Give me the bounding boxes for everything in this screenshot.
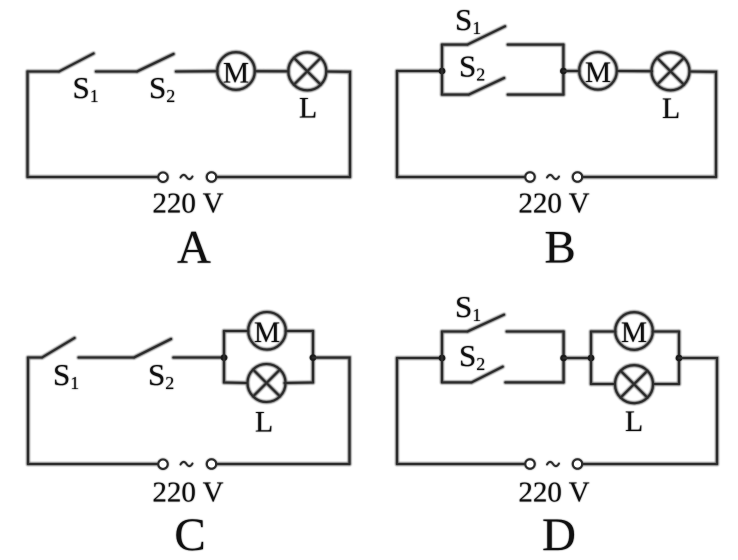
node D lamp-box left junction	[588, 355, 595, 362]
node D switch-box right junction	[560, 355, 567, 362]
switch S1 blade (C)	[42, 338, 75, 358]
AC tilde (C)	[181, 462, 193, 466]
switch S2 blade (B)	[469, 78, 504, 95]
lamp L (D) circle	[615, 365, 653, 403]
svg-text:S1: S1	[73, 70, 99, 106]
svg-text:M: M	[585, 57, 611, 89]
wire C left riser	[223, 331, 225, 383]
switch S1 blade (A)	[59, 54, 94, 72]
lamp L (A) cross	[294, 58, 321, 85]
wire A from S2 to motor	[176, 70, 218, 72]
wire B left to node	[397, 70, 442, 72]
switch S1 blade (D)	[467, 315, 504, 332]
wire B top branch right	[508, 44, 564, 46]
svg-text:C: C	[174, 509, 205, 560]
node B right junction	[560, 68, 567, 75]
wire D ML bottom branch right	[653, 383, 679, 385]
wire C bottom branch left	[224, 381, 247, 384]
svg-text:S2: S2	[149, 70, 175, 106]
wire D bottom-left	[397, 463, 525, 465]
wire C between S1 and S2	[79, 356, 134, 358]
svg-text:S2: S2	[148, 357, 174, 393]
svg-text:L: L	[662, 92, 680, 125]
motor M (A) circle	[217, 52, 255, 90]
wire D left vertical	[396, 358, 398, 464]
svg-text:220 V: 220 V	[152, 188, 223, 220]
wire B top branch left	[442, 44, 468, 46]
wire C left vertical	[27, 358, 29, 465]
svg-text:220 V: 220 V	[518, 188, 589, 220]
svg-text:L: L	[255, 406, 273, 439]
svg-text:M: M	[621, 317, 647, 349]
wire B lamp to right corner	[690, 72, 717, 178]
wire D ML bottom branch left	[591, 383, 615, 385]
wire C top-left segment	[28, 356, 42, 358]
wire C top branch right	[286, 330, 314, 332]
wire A lamp to right corner	[326, 72, 350, 178]
wire A between S1 and S2	[96, 70, 137, 72]
motor M (B) circle	[579, 52, 617, 90]
terminal right (C)	[207, 459, 216, 468]
wire A top-left segment	[28, 70, 60, 72]
terminal right (A)	[207, 172, 216, 181]
terminal left (B)	[525, 172, 534, 181]
wire B right riser	[562, 45, 564, 95]
node D left junction	[439, 355, 446, 362]
wire D node to right corner	[679, 358, 717, 464]
wire D link between boxes	[564, 357, 591, 359]
switch S2 blade (A)	[137, 54, 174, 72]
wire C bottom-right	[216, 463, 349, 465]
terminal left (C)	[158, 460, 167, 469]
svg-text:B: B	[544, 222, 575, 274]
lamp L (A) circle	[288, 52, 326, 90]
wire D top branch right	[507, 330, 564, 332]
wire D ML top branch right	[653, 330, 680, 332]
svg-text:220 V: 220 V	[152, 477, 223, 509]
wire B left vertical	[396, 71, 398, 177]
wire D lamp-box left riser	[590, 332, 592, 385]
lamp L (D) cross	[621, 371, 648, 398]
motor M (C) circle	[248, 312, 286, 350]
terminal left (D)	[525, 459, 534, 468]
wire D switch-box right riser	[563, 332, 565, 383]
wire A bottom-left	[28, 176, 159, 178]
wire A bottom-right	[216, 176, 350, 178]
svg-text:D: D	[542, 509, 576, 560]
wire B bottom-right	[582, 176, 716, 178]
wire A between motor and lamp	[255, 70, 289, 72]
wire D lamp-box right riser	[678, 332, 680, 385]
node C left junction	[221, 354, 228, 361]
wire D bottom branch right	[505, 381, 563, 383]
wire B bottom branch right	[508, 94, 564, 96]
wire B left riser	[441, 45, 443, 95]
terminal left (A)	[158, 173, 167, 182]
wire D left to node	[397, 357, 442, 359]
svg-text:L: L	[299, 92, 317, 125]
wire C from S2 to node	[173, 356, 224, 358]
node C right junction	[310, 354, 317, 361]
wire D switch-box left riser	[441, 332, 443, 383]
wire B bottom branch left	[442, 94, 469, 96]
svg-text:L: L	[625, 405, 643, 438]
wire C top branch left	[224, 330, 249, 332]
terminal right (B)	[573, 172, 582, 181]
svg-text:S2: S2	[459, 49, 485, 85]
AC tilde (A)	[181, 175, 193, 179]
lamp L (B) circle	[652, 52, 690, 90]
AC tilde (B)	[547, 175, 559, 179]
node B left junction	[439, 68, 446, 75]
switch S1 blade (B)	[468, 26, 506, 44]
wire B motor to lamp	[617, 70, 652, 72]
switch S2 blade (D)	[472, 367, 503, 383]
lamp L (C) cross	[253, 370, 280, 397]
switch S2 blade (C)	[134, 339, 171, 358]
svg-text:A: A	[177, 222, 211, 274]
svg-text:S1: S1	[455, 2, 481, 38]
terminal right (D)	[573, 459, 582, 468]
lamp L (B) cross	[657, 58, 684, 85]
svg-text:S1: S1	[455, 289, 481, 325]
svg-text:M: M	[223, 57, 249, 89]
wire C bottom-left	[28, 463, 158, 465]
wire C right riser	[312, 331, 314, 383]
wire C node to right corner	[313, 358, 350, 464]
svg-text:M: M	[254, 317, 280, 349]
motor M (D) circle	[615, 312, 653, 350]
lamp L (C) circle	[248, 364, 286, 402]
wire D top branch left	[442, 330, 467, 332]
AC tilde (D)	[547, 462, 559, 466]
wire B node to motor	[563, 70, 579, 72]
wire C bottom branch right	[285, 381, 314, 384]
wire D bottom branch left	[442, 381, 472, 383]
wire A left vertical	[26, 72, 28, 178]
node D lamp-box right junction	[676, 355, 683, 362]
wire B bottom-left	[397, 176, 525, 178]
svg-text:S2: S2	[459, 338, 485, 374]
svg-text:220 V: 220 V	[518, 477, 589, 509]
wire D bottom-right	[582, 463, 717, 465]
svg-text:S1: S1	[53, 357, 79, 393]
wire D ML top branch left	[591, 330, 616, 332]
